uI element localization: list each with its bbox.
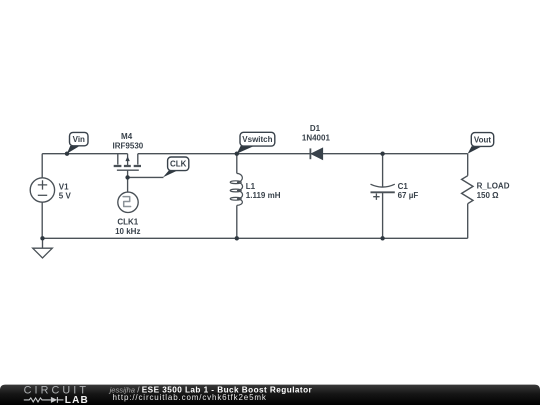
capacitor C1 curved plate bbox=[371, 184, 395, 187]
footer logo circuit glyph bbox=[24, 397, 64, 403]
transistor M4 gate bar bbox=[117, 169, 139, 171]
flag CLK tail bbox=[163, 171, 178, 178]
svg-text:LAB: LAB bbox=[65, 395, 89, 405]
wire: top rail left segment (V1 to MOSFET) bbox=[42, 153, 127, 155]
junction dot: Vswitch/L1 top bbox=[235, 152, 239, 156]
wire: top rail right segment (MOSFET drain to Vout corner) bbox=[138, 153, 468, 155]
junction dot: C1 bottom bbox=[380, 236, 384, 240]
diode D1 cathode bar bbox=[309, 148, 311, 159]
wire: gate junction to CLK flag bbox=[128, 176, 164, 178]
footer bar bbox=[0, 385, 540, 405]
voltage source V1 bbox=[30, 178, 54, 202]
wire: R_LOAD top lead bbox=[467, 154, 469, 176]
svg-text:5 V: 5 V bbox=[59, 191, 72, 200]
transistor M4 channel bars bbox=[114, 165, 141, 167]
flag Vout tail bbox=[468, 146, 482, 153]
inductor L1 coil bbox=[230, 173, 242, 205]
svg-text:R_LOAD: R_LOAD bbox=[477, 181, 510, 190]
svg-text:Vout: Vout bbox=[474, 135, 492, 144]
flag Vin box bbox=[70, 132, 89, 145]
junction dot: ground bbox=[40, 236, 44, 240]
svg-text:C1: C1 bbox=[398, 182, 409, 191]
transistor Q M4 left stub (source) bbox=[117, 154, 119, 165]
junction dot: L1 bottom bbox=[235, 236, 239, 240]
ground bbox=[42, 238, 44, 248]
wire: V1 top lead bbox=[41, 154, 43, 178]
junction dot: C1 top bbox=[380, 152, 384, 156]
footer logo diode glyph bbox=[51, 397, 57, 403]
transistor M4 right stub (drain) bbox=[137, 154, 139, 165]
junction dot: gate/CLK bbox=[125, 175, 129, 179]
transistor M4 bulk arrow line bbox=[127, 154, 129, 166]
svg-text:M4: M4 bbox=[121, 132, 133, 141]
svg-text:10 kHz: 10 kHz bbox=[115, 227, 140, 236]
clock source CLK1 waveform glyph bbox=[123, 197, 131, 207]
wire: L1 top lead bbox=[236, 154, 238, 174]
svg-text:Vswitch: Vswitch bbox=[242, 135, 272, 144]
flag CLK box bbox=[168, 157, 189, 171]
svg-text:IRF9530: IRF9530 bbox=[113, 142, 144, 151]
flag Vswitch box bbox=[240, 132, 275, 146]
svg-text:http://circuitlab.com/cvhk6tfk: http://circuitlab.com/cvhk6tfk2e5mk bbox=[113, 393, 267, 402]
svg-text:150 Ω: 150 Ω bbox=[477, 191, 500, 200]
diode D1 triangle bbox=[311, 148, 322, 159]
wire: V1 bottom lead bbox=[41, 202, 43, 238]
wire: gate lead down to clock bbox=[127, 170, 129, 192]
flag Vout box bbox=[471, 133, 493, 147]
wire: bottom ground rail bbox=[43, 237, 468, 239]
capacitor C1 straight plate bbox=[371, 191, 395, 193]
flag Vin tail bbox=[67, 146, 80, 154]
svg-text:L1: L1 bbox=[246, 182, 256, 191]
svg-text:CLK: CLK bbox=[170, 160, 187, 169]
svg-text:D1: D1 bbox=[310, 124, 321, 133]
svg-text:67 µF: 67 µF bbox=[398, 191, 419, 200]
svg-text:Vin: Vin bbox=[73, 135, 85, 144]
svg-text:CLK1: CLK1 bbox=[117, 217, 138, 226]
wire: C1 bottom lead bbox=[382, 192, 384, 238]
wire: R_LOAD bottom lead bbox=[467, 204, 469, 239]
junction dot: Vin tap bbox=[65, 152, 69, 156]
svg-text:V1: V1 bbox=[59, 182, 69, 191]
clock source CLK1 circle bbox=[118, 192, 138, 212]
capacitor C1 plus sign bbox=[373, 194, 379, 200]
wire: L1 bottom lead bbox=[236, 205, 238, 238]
wire: C1 top lead bbox=[382, 154, 384, 187]
svg-text:1N4001: 1N4001 bbox=[302, 134, 331, 143]
svg-text:1.119 mH: 1.119 mH bbox=[246, 191, 281, 200]
flag Vswitch tail bbox=[237, 146, 254, 154]
resistor R_LOAD zigzag bbox=[462, 176, 473, 204]
transistor M4 bulk arrow head bbox=[125, 156, 129, 161]
